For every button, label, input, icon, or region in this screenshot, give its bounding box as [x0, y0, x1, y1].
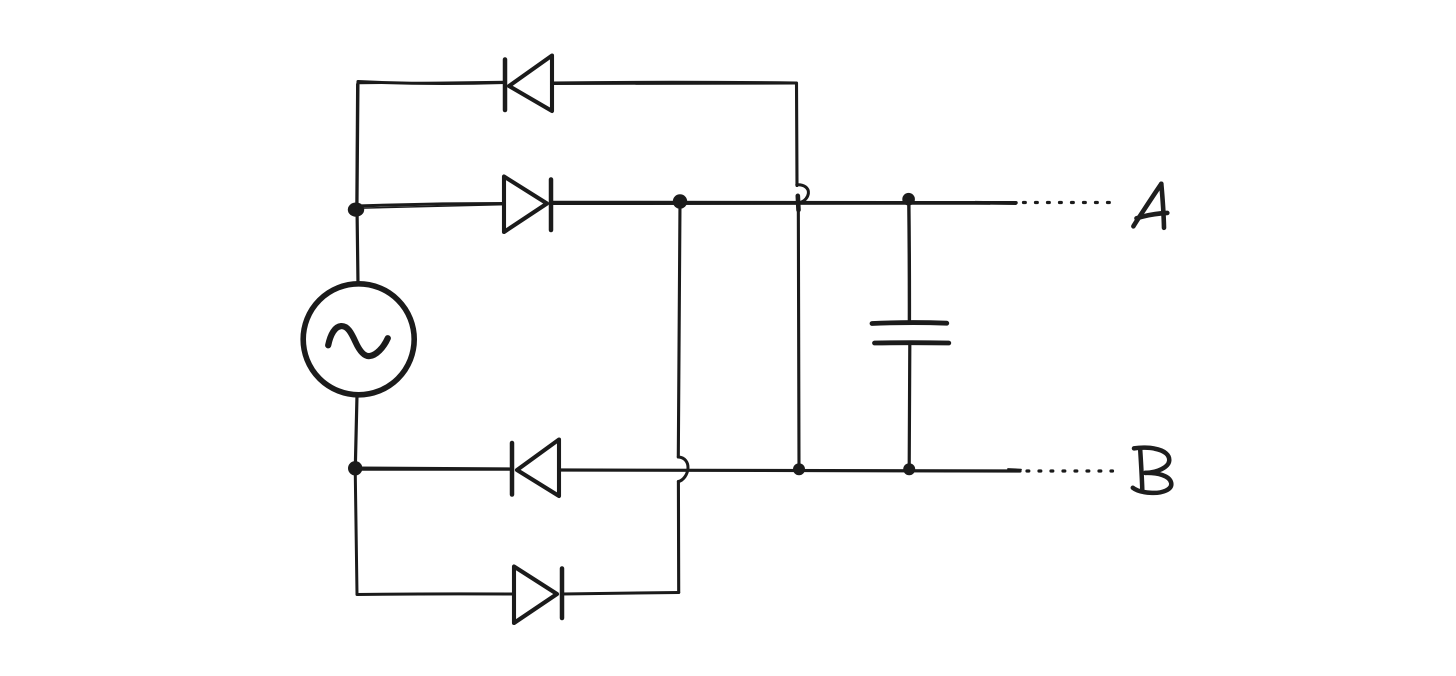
- capacitor C1 bottom lead: [908, 345, 912, 469]
- wire right vertical (top corner down, hop over A, to node on B): [797, 83, 809, 469]
- label B (output terminal): [1133, 448, 1172, 493]
- wire A dotted lead: [1024, 201, 1111, 204]
- wire bottom vertical (node on B down to bottom corner): [355, 469, 357, 595]
- diode D1 (left-pointing, top branch): [505, 56, 552, 112]
- wire left vertical (top corner down to node at A): [356, 82, 358, 206]
- node (B wire / right vertical junction): [793, 463, 805, 475]
- wire mid vertical (node on A down, hop over B, to bottom corner): [678, 202, 688, 593]
- wire A-right (D2 cathode to A terminal): [551, 201, 1017, 205]
- wire B-right (D3 to B terminal): [559, 470, 1020, 471]
- node (junction of source bottom and B wire): [348, 461, 362, 475]
- node (junction of source top and A wire): [348, 203, 364, 217]
- diode D2 (right-pointing, A branch): [504, 177, 551, 233]
- node (A wire / capacitor junction): [902, 193, 915, 206]
- wire source top lead (circle to node): [357, 207, 358, 284]
- diode D4 (right-pointing, bottom branch): [514, 567, 562, 624]
- wire bottom-right horizontal (D4 cathode to mid vertical): [562, 593, 679, 595]
- capacitor C1 plates: [872, 323, 949, 343]
- diode D3 (left-pointing, B branch): [512, 440, 559, 497]
- voltage source V1 (AC) circle: [303, 284, 414, 395]
- node (A wire / mid vertical junction): [673, 194, 687, 208]
- capacitor C1 top lead: [907, 200, 911, 321]
- wire top-right horizontal (D1 cathode side to right corner): [552, 82, 796, 84]
- voltage source V1 sine wave: [328, 326, 388, 356]
- label A (output terminal): [1133, 184, 1167, 228]
- wire B-left (node to D3 cathode bar): [356, 468, 512, 470]
- node (B wire / capacitor junction): [903, 463, 915, 475]
- wire A-left (node to D2 anode): [356, 204, 504, 209]
- wire bottom-left horizontal (corner to D4 anode): [357, 592, 514, 596]
- wire source bottom lead (circle to node on B): [355, 395, 357, 468]
- wire top-left horizontal (top loop to D1 anode): [358, 82, 505, 84]
- wire B dotted lead: [1027, 469, 1113, 472]
